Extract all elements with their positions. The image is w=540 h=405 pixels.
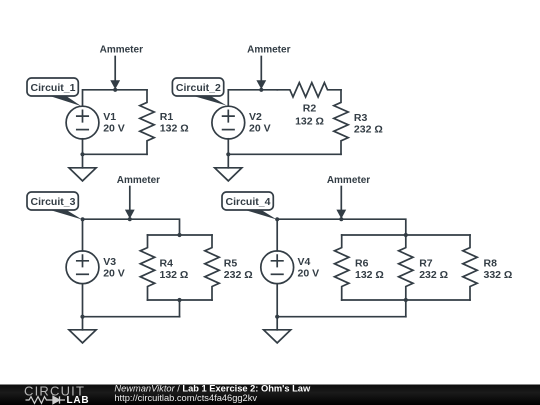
wire (83, 153, 148, 155)
svg-text:R2: R2 (303, 103, 317, 115)
svg-text:R1: R1 (160, 111, 174, 123)
svg-text:R6: R6 (355, 258, 369, 270)
wire bus top C4 (342, 234, 470, 236)
svg-text:132 Ω: 132 Ω (355, 269, 384, 281)
node (bus bottom C3) (177, 298, 181, 302)
node A4 (ammeter tip C4) (339, 217, 343, 221)
svg-text:20 V: 20 V (249, 122, 271, 134)
node (bus top C4) (404, 233, 408, 237)
V1 minus sign (77, 129, 88, 131)
node (V4 bottom junction) (275, 315, 279, 319)
node A2 (ammeter tip C2) (259, 88, 263, 92)
node (bus bottom C4) (404, 298, 408, 302)
wire bus top C3 (148, 234, 213, 236)
ammeter arrow C2 (260, 57, 262, 81)
resistor R1 (140, 90, 154, 155)
callout Circuit_4 (240, 209, 277, 220)
svg-text:Circuit_4: Circuit_4 (226, 196, 271, 208)
ground G1 (69, 168, 96, 181)
svg-text:Ammeter: Ammeter (100, 44, 143, 55)
V3 plus sign (77, 255, 88, 266)
svg-text:20 V: 20 V (103, 267, 125, 279)
svg-text:132 Ω: 132 Ω (160, 122, 189, 134)
svg-text:R5: R5 (224, 258, 238, 270)
wire (276, 284, 278, 330)
svg-text:R3: R3 (354, 112, 368, 124)
voltage source V3 (66, 251, 99, 284)
resistor R2 (277, 83, 341, 97)
svg-text:332 Ω: 332 Ω (484, 269, 513, 281)
svg-text:Circuit_1: Circuit_1 (31, 82, 76, 94)
svg-text:20 V: 20 V (298, 267, 320, 279)
wire bottom C3 (83, 316, 180, 318)
voltage source V1 (66, 106, 99, 139)
resistor R7 (399, 235, 413, 300)
ammeter arrow C1 (114, 57, 116, 81)
resistor R8 (463, 235, 477, 300)
V3 minus sign (77, 273, 88, 275)
callout Circuit_1 (45, 95, 81, 107)
svg-text:LAB: LAB (67, 395, 90, 405)
svg-text:Ammeter: Ammeter (117, 175, 160, 186)
node (V3 bottom junction) (80, 315, 84, 319)
ammeter arrow C3 (129, 187, 131, 211)
V4 plus sign (272, 255, 283, 266)
svg-text:132 Ω: 132 Ω (160, 269, 189, 281)
ground G2 (215, 168, 242, 181)
V2 minus sign (223, 129, 234, 131)
node A1 (ammeter tip C1) (113, 88, 117, 92)
svg-text:R8: R8 (484, 258, 498, 270)
callout Circuit_3 (45, 209, 82, 220)
wire (405, 300, 407, 317)
node (V1 bottom junction) (80, 152, 84, 156)
resistor R5 (205, 235, 219, 300)
wire (179, 300, 181, 317)
ground G4 (264, 330, 291, 343)
resistor R6 (335, 235, 349, 300)
logo diode (51, 396, 66, 403)
voltage source V2 (212, 106, 245, 139)
svg-text:V2: V2 (249, 111, 262, 123)
svg-text:V4: V4 (298, 256, 311, 268)
V2 plus sign (223, 110, 234, 121)
node (V2 bottom junction) (226, 152, 230, 156)
wire top C4 (277, 219, 406, 251)
svg-text:132 Ω: 132 Ω (295, 116, 324, 128)
wire bottom C2 (227, 139, 229, 168)
voltage source V4 (261, 251, 294, 284)
svg-text:Ammeter: Ammeter (327, 175, 370, 186)
node A3 (ammeter tip C3) (128, 217, 132, 221)
svg-text:Ammeter: Ammeter (247, 44, 290, 55)
wire top C3 (83, 219, 180, 251)
node (bus top C3) (177, 233, 181, 237)
svg-text:R7: R7 (419, 258, 433, 270)
wire bottom C4 (277, 316, 406, 318)
wire (82, 284, 84, 330)
callout Circuit_2 (190, 95, 227, 106)
svg-text:20 V: 20 V (103, 122, 125, 134)
resistor R4 (140, 235, 154, 300)
svg-text:232 Ω: 232 Ω (224, 269, 253, 281)
ammeter arrow C4 (340, 187, 342, 211)
wire bus bottom C4 (342, 299, 470, 301)
wire top C1 (83, 90, 148, 106)
svg-text:232 Ω: 232 Ω (419, 269, 448, 281)
wire bus bottom C3 (148, 299, 213, 301)
svg-text:http://circuitlab.com/cts4fa46: http://circuitlab.com/cts4fa46gg2kv (114, 393, 257, 403)
V1 plus sign (77, 110, 88, 121)
svg-text:Circuit_2: Circuit_2 (176, 82, 221, 94)
svg-text:Circuit_3: Circuit_3 (31, 196, 76, 208)
svg-text:V1: V1 (103, 111, 116, 123)
svg-text:V3: V3 (103, 256, 116, 268)
wire top C2 (228, 90, 277, 106)
logo resistor squiggle (26, 397, 51, 404)
V4 minus sign (272, 273, 283, 275)
wire (228, 153, 341, 155)
ground G3 (69, 330, 96, 343)
wire bottom C1 (82, 139, 84, 168)
resistor R3 (334, 90, 348, 155)
svg-text:232 Ω: 232 Ω (354, 123, 383, 135)
svg-text:R4: R4 (160, 258, 174, 270)
